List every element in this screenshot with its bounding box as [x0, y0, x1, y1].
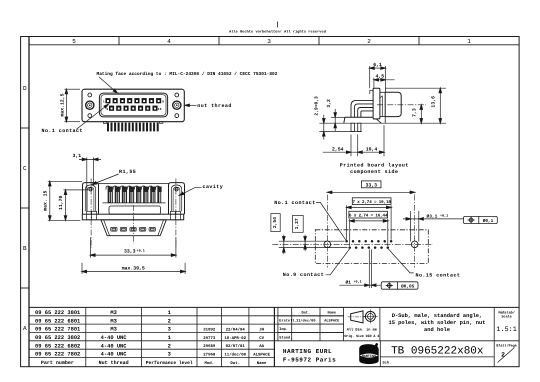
svg-text:ALSPACE: ALSPACE — [253, 353, 270, 358]
svg-text:1: 1 — [168, 310, 171, 316]
svg-text:nut thread: nut thread — [197, 103, 232, 109]
svg-text:Printed board layout: Printed board layout — [340, 162, 409, 168]
svg-text:09 65 222 7802: 09 65 222 7802 — [35, 352, 80, 358]
pin A outer bend — [351, 100, 373, 117]
svg-text:09 65 222 3801: 09 65 222 3801 — [35, 310, 80, 316]
shroud centerline — [377, 104, 426, 106]
svg-text:1: 1 — [467, 38, 471, 45]
solder pad 1 — [111, 227, 117, 231]
svg-text:HARTING EURL: HARTING EURL — [283, 348, 332, 355]
svg-text:13,6: 13,6 — [431, 96, 437, 108]
dim 11,70 ext top — [64, 189, 89, 191]
leader No.15 — [388, 249, 413, 273]
table row line 1 — [29, 315, 344, 317]
solder pad 2 — [120, 227, 126, 231]
jack screw right outer ring — [173, 101, 181, 109]
dim max.39,5 line — [82, 271, 185, 273]
ext pin15 col — [387, 219, 389, 246]
board reference line — [319, 122, 446, 124]
dim hole dia ext right — [418, 211, 420, 242]
svg-text:09 65 222 3802: 09 65 222 3802 — [35, 335, 80, 341]
svg-text:ALSPACE: ALSPACE — [324, 319, 340, 324]
solder pins comb — [107, 123, 159, 132]
hole right vertical centerline — [414, 195, 416, 268]
nut tab left — [87, 211, 97, 219]
svg-text:1,27: 1,27 — [294, 218, 300, 229]
leader nut thread — [186, 104, 197, 106]
created sub-table left line — [277, 307, 279, 340]
svg-text:15 poles, with solder pin, nut: 15 poles, with solder pin, nut — [388, 320, 485, 326]
created sub-table col name — [319, 307, 321, 340]
pin holes row 2 — [348, 246, 389, 249]
insulator face step vertical — [369, 90, 371, 94]
svg-text:JH: JH — [259, 328, 264, 333]
ext pin9 col — [349, 219, 351, 246]
flange bottom tab left — [103, 122, 106, 124]
shroud bottom corner vertical — [384, 117, 386, 124]
svg-text:CV: CV — [259, 336, 264, 341]
svg-text:No.15 contact: No.15 contact — [416, 272, 461, 278]
dim max.15 line — [49, 181, 51, 220]
flange corner hole bottom-left — [88, 114, 92, 118]
fcf frame hole — [464, 216, 498, 223]
svg-text:15: 15 — [158, 108, 162, 111]
dim max.12,5 ext top — [64, 88, 80, 90]
dim 2,54/10,4 line — [323, 151, 384, 153]
row1 ext line left — [279, 240, 345, 242]
D-shroud outer — [99, 93, 167, 117]
svg-text:4-40 UNC: 4-40 UNC — [101, 343, 128, 349]
body top edge — [99, 182, 169, 184]
svg-text:Dat.: Dat. — [230, 361, 240, 366]
hole left vertical centerline — [326, 195, 328, 268]
comb top arches — [106, 186, 160, 190]
svg-text:HARTING: HARTING — [362, 354, 376, 359]
svg-text:11/dec/00: 11/dec/00 — [224, 353, 246, 358]
svg-text:M3: M3 — [110, 318, 116, 324]
dim 7,3 line — [420, 105, 422, 123]
comb inner white stripes — [110, 192, 161, 205]
svg-text:M3: M3 — [110, 310, 116, 316]
svg-text:Scale: Scale — [502, 314, 512, 319]
bracket left cap — [344, 117, 345, 123]
sub-table row lines — [278, 315, 344, 317]
svg-text:Ø0,05: Ø0,05 — [401, 284, 415, 289]
svg-text:18-APR-02: 18-APR-02 — [224, 336, 246, 341]
contact pins row 2 (9-15) — [109, 106, 158, 111]
dim 3,1 ext b — [92, 157, 94, 186]
title block separator thick — [273, 307, 275, 366]
svg-text:max. 15: max. 15 — [42, 191, 48, 211]
table row line 5 — [29, 348, 274, 350]
centerline right ear — [175, 179, 177, 249]
projection symbol cone — [351, 311, 363, 323]
svg-text:8: 8 — [162, 100, 164, 103]
solder pad 4 — [140, 227, 146, 231]
svg-text:3,2: 3,2 — [326, 99, 332, 108]
projection cell left — [343, 307, 345, 340]
mounting hole left — [324, 241, 331, 248]
col part/thread — [85, 307, 87, 366]
hole dia leader line — [403, 218, 464, 220]
svg-text:TB 0965222x80x: TB 0965222x80x — [391, 346, 484, 358]
svg-text:27960: 27960 — [203, 353, 216, 358]
dim 6,1 ext left — [369, 66, 371, 88]
trapezoid inner wall left — [104, 220, 110, 236]
dim max.39,5 ext right — [184, 263, 186, 274]
insulator face chamfer — [380, 96, 382, 98]
leader No.1 pcb — [316, 202, 346, 240]
svg-text:C: C — [23, 165, 27, 172]
dim 33,3 box — [361, 181, 381, 188]
flange bottom chamfer — [373, 119, 381, 123]
dim 6x line — [350, 220, 388, 222]
shroud side — [385, 92, 401, 116]
leader No.1 contact — [77, 105, 108, 129]
flange corner hole top-right — [175, 93, 179, 97]
dim 33,3 rear line — [91, 254, 176, 256]
svg-text:Mating face according to : MIL: Mating face according to : MIL-C-24308 /… — [97, 71, 278, 77]
dim 1,27 box — [293, 216, 304, 233]
pin hole dia ext left — [368, 250, 370, 289]
col mod/dat — [221, 307, 223, 366]
svg-text:B: B — [23, 245, 27, 252]
ext pin A to dim — [350, 135, 352, 157]
inner frame thick vertical — [28, 37, 30, 367]
flange top ext line — [385, 87, 446, 89]
leader cavity — [181, 187, 202, 195]
svg-text:No.9 contact: No.9 contact — [283, 272, 324, 278]
svg-text:Name: Name — [257, 361, 267, 366]
svg-text:D-Sub, male, standard angle,: D-Sub, male, standard angle, — [392, 313, 483, 319]
dim 2,54 box — [271, 214, 280, 232]
contact pins row 1 (1-8) — [105, 98, 161, 103]
projection circle crosshair h — [364, 315, 378, 317]
description cell left — [379, 307, 381, 340]
ear right nut circle — [175, 188, 178, 191]
svg-text:22/04/04: 22/04/04 — [226, 328, 246, 333]
logo cell line — [379, 341, 381, 367]
harting logo — [359, 343, 379, 364]
row tick D/C — [21, 127, 29, 129]
ear right inner slot — [171, 185, 181, 211]
pin dia leader line — [339, 284, 381, 286]
comb white dividers — [107, 187, 163, 203]
dim 4,5 ext left — [373, 78, 375, 88]
dim 33,3 rear ext right — [175, 238, 177, 258]
dim 33,3 rear ext left — [90, 238, 92, 258]
projection circle inner — [368, 314, 374, 320]
row tick B/A — [21, 287, 29, 289]
svg-text:4-40 UNC: 4-40 UNC — [101, 335, 128, 341]
dim 1,27 vline — [304, 235, 306, 251]
pin B outer bend — [358, 108, 373, 118]
connector flange — [82, 89, 184, 122]
dim 7x line — [347, 206, 392, 208]
trapezoid inner wall right — [158, 220, 164, 236]
svg-text:31892: 31892 — [203, 328, 216, 333]
dim max.15 ext bottom — [48, 219, 81, 221]
flange corner hole top-left — [88, 93, 92, 97]
dim 2,54 vline — [283, 235, 285, 254]
pin holes row 1 — [345, 240, 392, 243]
svg-text:1.5:1: 1.5:1 — [496, 326, 516, 334]
projection circle outer — [365, 311, 375, 321]
insulator between flange and shroud top — [380, 91, 385, 93]
tb cell left line — [380, 356, 494, 358]
ext flange plane to dim — [383, 125, 385, 156]
table row line 3 — [29, 332, 344, 334]
svg-text:A: A — [23, 325, 27, 332]
svg-text:33,3: 33,3 — [365, 182, 377, 188]
svg-text:Dat.: Dat. — [301, 310, 310, 315]
body side left — [98, 202, 100, 215]
svg-text:Ø1: Ø1 — [346, 279, 352, 285]
svg-text:Ø0,1: Ø0,1 — [483, 219, 494, 224]
table row line 2 — [29, 323, 344, 325]
svg-text:Erstell.: Erstell. — [279, 319, 296, 324]
svg-text:Performance level: Performance level — [146, 360, 193, 366]
svg-text:3: 3 — [168, 352, 171, 358]
table row line 4 — [29, 340, 519, 342]
flange corner hole bottom-right — [175, 114, 179, 118]
nut tab right — [170, 211, 180, 219]
ext pin1 col — [346, 205, 348, 239]
svg-text:Nut thread: Nut thread — [99, 360, 129, 366]
svg-text:1: 1 — [103, 100, 105, 103]
col level/mod — [196, 307, 198, 366]
svg-text:11,70: 11,70 — [58, 195, 64, 210]
dim 7x2,74 box — [352, 198, 391, 205]
ext pin8 col — [390, 205, 392, 239]
svg-text:09 65 222 6802: 09 65 222 6802 — [35, 343, 80, 349]
centerline left ear — [90, 179, 92, 249]
fcf divider — [478, 216, 480, 223]
svg-text:Part number: Part number — [41, 360, 74, 366]
svg-text:33,3: 33,3 — [124, 249, 136, 255]
outer frame — [21, 37, 519, 367]
contact comb dark block — [106, 187, 163, 203]
svg-text:D: D — [23, 85, 27, 92]
svg-text:Imp.: Imp. — [279, 327, 288, 332]
projection circle crosshair v — [369, 309, 371, 323]
svg-text:5: 5 — [72, 38, 76, 45]
page slash — [498, 348, 515, 363]
svg-text:7 x 2,74 = 19,18: 7 x 2,74 = 19,18 — [352, 200, 391, 205]
scale column left — [493, 307, 495, 366]
dim max.39,5 ext left — [81, 263, 83, 274]
insulator face inner vertical — [381, 96, 383, 117]
svg-text:09 65 222 6801: 09 65 222 6801 — [35, 318, 80, 324]
svg-text:and hole: and hole — [424, 327, 450, 333]
svg-text:2: 2 — [367, 38, 371, 45]
svg-text:10,4: 10,4 — [366, 146, 378, 152]
pcb horizontal centerline — [272, 243, 433, 245]
solder pin A below board — [351, 123, 354, 131]
zone tick 2 — [218, 37, 220, 45]
svg-text:max.39,5: max.39,5 — [122, 265, 145, 271]
zone tick 3 — [318, 37, 320, 45]
body side right — [168, 202, 170, 215]
svg-text:Name: Name — [327, 310, 336, 315]
svg-text:29773: 29773 — [203, 336, 216, 341]
svg-text:component side: component side — [350, 169, 398, 175]
dim hole dia ext left — [410, 211, 412, 242]
dim 3,2 line — [334, 109, 336, 131]
leader No.9 — [326, 249, 350, 275]
bracket top — [345, 116, 373, 118]
svg-text:F-95972 Paris: F-95972 Paris — [283, 356, 336, 363]
svg-text:3: 3 — [168, 327, 171, 333]
svg-text:+0,1: +0,1 — [440, 214, 448, 219]
created sub-table col dat — [291, 307, 293, 340]
svg-text:4-40 UNC: 4-40 UNC — [101, 352, 128, 358]
pin B inner bend — [361, 111, 373, 117]
jack screw left outer ring — [86, 101, 94, 109]
insulator back block — [109, 206, 161, 214]
solder pad 5 — [149, 227, 155, 231]
zone band line — [29, 44, 519, 46]
mounting hole right — [411, 241, 418, 248]
dim 4,5 line — [374, 79, 395, 81]
description text — [388, 313, 485, 333]
dim 6x2,74 box — [349, 211, 388, 218]
pin hole dia ext right — [370, 250, 372, 289]
solder pin B below board — [358, 123, 361, 131]
ear left — [83, 183, 99, 215]
dim max.12,5 line — [65, 89, 67, 122]
svg-text:09 65 222 7801: 09 65 222 7801 — [35, 327, 80, 333]
svg-text:AA: AA — [259, 344, 264, 349]
dim 3,1 line — [79, 158, 101, 160]
table top line — [29, 306, 519, 308]
projection cone centerline — [348, 316, 366, 318]
ear right — [169, 183, 185, 215]
leader R1,55 — [93, 174, 118, 184]
svg-text:6 x 2,74 = 16,44: 6 x 2,74 = 16,44 — [349, 214, 388, 219]
svg-text:2: 2 — [168, 318, 171, 324]
centerline middle — [133, 205, 135, 244]
pin cavity whites row1 — [107, 100, 160, 102]
flange band — [82, 214, 183, 220]
jack screw left center dot — [89, 104, 91, 106]
svg-text:M3: M3 — [110, 327, 116, 333]
svg-text:1: 1 — [168, 335, 171, 341]
jack screw right inner — [175, 103, 179, 107]
fcf divider pin — [397, 282, 399, 289]
flange bottom tab right — [160, 122, 163, 124]
ext pin B to dim — [357, 135, 359, 157]
pin tip reference line — [319, 131, 361, 133]
col thread/level — [141, 307, 143, 366]
position symbol pin — [386, 282, 393, 288]
dim max.15 ext top — [48, 180, 82, 182]
svg-text:2: 2 — [168, 343, 171, 349]
fcf frame pin — [381, 282, 418, 289]
ear left inner slot — [85, 185, 95, 211]
zone tick 1 — [118, 37, 120, 45]
copyright tick — [277, 22, 279, 28]
svg-text:All Dim. in mm: All Dim. in mm — [347, 328, 378, 333]
pcb dashed outline — [315, 230, 428, 264]
zone tick 4 — [418, 37, 420, 45]
table row line 6 — [29, 357, 274, 359]
svg-text:Alle Rechte vorbehalten/ All r: Alle Rechte vorbehalten/ All rights rese… — [229, 30, 326, 35]
dim 6,1 line — [370, 67, 386, 69]
svg-text:+0,1: +0,1 — [137, 248, 145, 253]
svg-text:Orig. Size DIN A 4: Orig. Size DIN A 4 — [344, 334, 379, 339]
svg-text:02/07/01: 02/07/01 — [226, 344, 246, 349]
ear left nut circle — [89, 188, 92, 191]
dim 13,6 line — [439, 88, 441, 123]
row2 ext line left — [279, 247, 348, 249]
bracket top ext line — [331, 116, 345, 118]
col dat/name — [248, 307, 250, 366]
flange side plate — [373, 88, 380, 119]
rear shroud trapezoid — [101, 220, 166, 236]
dim 33,3 pcb line — [327, 191, 414, 193]
dim 2,9 line — [323, 115, 325, 140]
svg-text:11/dec/00: 11/dec/00 — [296, 319, 315, 324]
dim 3,1 ext a — [86, 157, 88, 211]
dim 11,70 line — [65, 190, 67, 220]
jack screw right center dot — [176, 104, 178, 106]
dim 6,1/4,5 ext right — [384, 66, 386, 92]
insulator face step top — [370, 89, 373, 91]
svg-text:No.1 contact: No.1 contact — [274, 200, 315, 206]
svg-text:9: 9 — [106, 108, 108, 111]
jack screw left inner — [88, 103, 92, 107]
svg-text:Ø3,1: Ø3,1 — [427, 213, 438, 219]
svg-text:7,3: 7,3 — [412, 108, 418, 117]
pin A inner bend — [354, 104, 373, 117]
dim max.12,5 ext bottom — [64, 121, 80, 123]
svg-text:2,9+0,3: 2,9+0,3 — [314, 96, 320, 116]
svg-text:Sch.: Sch. — [383, 361, 392, 366]
svg-text:3: 3 — [267, 38, 271, 45]
row tick C/B — [21, 207, 29, 209]
svg-text:max.12,5: max.12,5 — [60, 93, 66, 116]
D-shroud inner — [101, 95, 166, 116]
position symbol hole — [468, 217, 475, 223]
pin cavity whites row2 — [111, 108, 156, 110]
svg-text:+0,1: +0,1 — [354, 280, 362, 285]
svg-text:4: 4 — [167, 38, 171, 45]
comb bottom line — [103, 202, 166, 204]
svg-text:2,54: 2,54 — [272, 217, 278, 228]
solder pad 3 — [130, 227, 136, 231]
insulator between flange and shroud bottom — [380, 116, 385, 118]
svg-text:2,54: 2,54 — [332, 146, 344, 152]
svg-text:Mod.: Mod. — [204, 361, 214, 366]
svg-text:29689: 29689 — [203, 344, 216, 349]
svg-text:3,1: 3,1 — [73, 153, 82, 159]
svg-text:cavity: cavity — [203, 184, 224, 190]
leader mating face — [99, 77, 117, 92]
svg-text:Stand.: Stand. — [279, 335, 292, 340]
svg-text:R1,55: R1,55 — [119, 169, 136, 175]
